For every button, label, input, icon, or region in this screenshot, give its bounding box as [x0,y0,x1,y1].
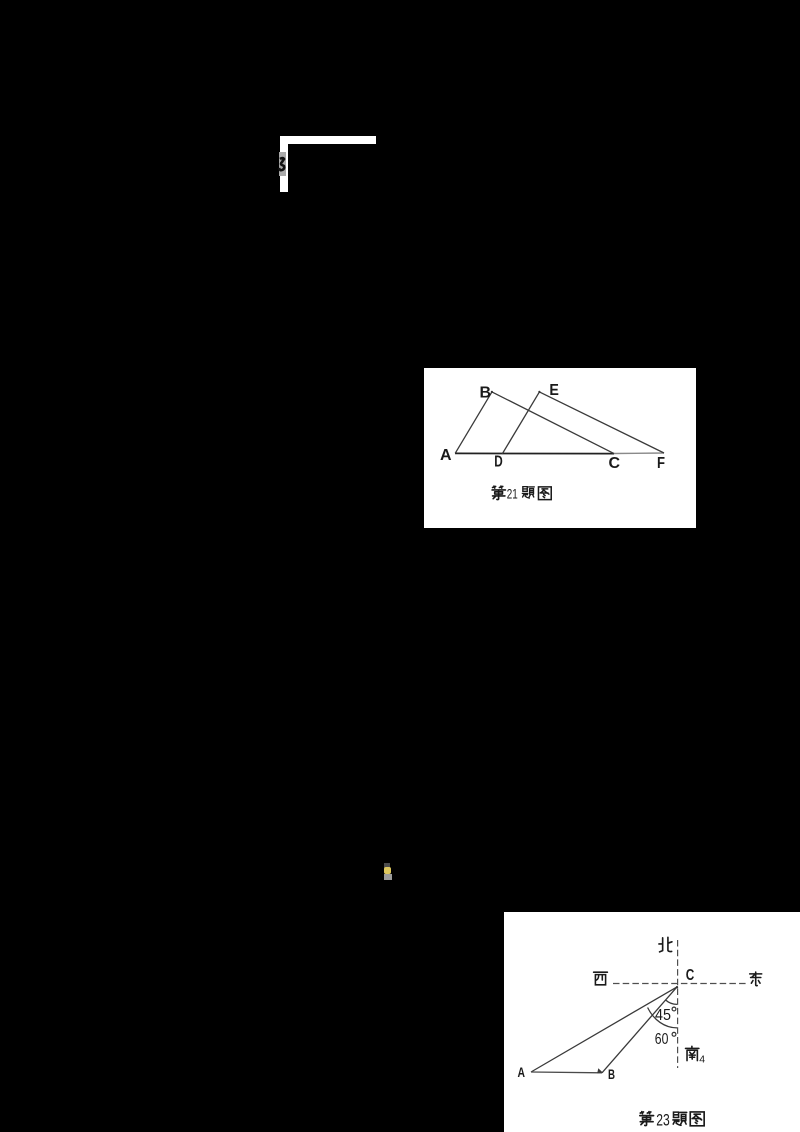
white L-shape sliver top-left (horizontal bar) [280,136,376,144]
figure panel 2 white background [504,912,800,1132]
svg-text:F: F [657,455,665,472]
line B-C [492,392,614,454]
vertex dot E [538,391,540,393]
west-east dashed line [613,983,746,985]
line D-E [502,392,539,454]
svg-text:4: 4 [699,1053,705,1065]
degree circle for 45 [672,1007,676,1011]
north-south dashed line [677,940,679,1068]
gray smudge on vertical sliver [279,152,286,176]
svg-text:C: C [686,967,695,984]
label north 北 [659,937,672,952]
caption 图 [690,1112,704,1126]
svg-text:D: D [494,454,503,471]
caption 图 [538,487,551,500]
svg-text:45: 45 [655,1007,671,1024]
baseline C-F [614,452,664,455]
line E-F [539,392,664,453]
arrowhead at B [597,1068,603,1073]
label east 东 [750,972,762,986]
white L-shape sliver top-left (vertical bar) [280,136,288,192]
svg-text:21: 21 [507,485,518,501]
line A-B [455,392,492,453]
figure panel 1 white background [424,368,696,528]
small color artifact dot (yellow middle) [384,867,391,874]
svg-text:B: B [480,384,492,401]
dark glyph fragment on sliver [279,158,284,170]
caption 题 [673,1112,687,1125]
small color artifact dot (gray bottom) [384,874,392,880]
vertex dot C [676,986,678,988]
small color artifact dot (dark top) [384,863,390,868]
svg-text:23: 23 [656,1112,670,1130]
svg-text:C: C [609,455,621,472]
caption 第 [640,1112,654,1126]
caption 题 [522,487,534,498]
svg-text:B: B [608,1067,615,1082]
vertex dot B [491,391,493,393]
svg-text:A: A [518,1065,526,1080]
label west 西 [594,972,608,985]
60-degree arc [648,1008,677,1028]
svg-text:A: A [440,447,452,464]
line C-B [602,987,677,1073]
caption 第 [492,486,505,499]
label south 南 [686,1046,699,1060]
svg-text:60: 60 [655,1031,669,1048]
45-degree arc [666,1000,678,1004]
line A-B [531,1071,602,1074]
svg-text:E: E [549,382,559,399]
baseline A-C [455,452,614,454]
degree circle for 60 [672,1032,676,1036]
line C-A [531,987,677,1072]
